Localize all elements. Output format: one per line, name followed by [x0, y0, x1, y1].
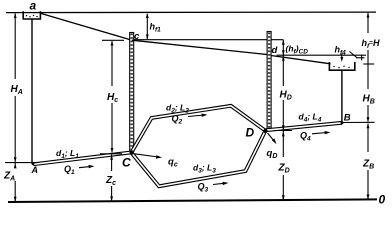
(hf)CD dimension — [282, 40, 284, 56]
HGL segment a to c — [40, 13, 131, 40]
tick at B water level on dim line — [363, 63, 374, 65]
d piezometric level line — [277, 54, 367, 56]
c level tick (left of tube) — [102, 39, 124, 41]
svg-text:D: D — [246, 126, 255, 140]
H_B dimension — [367, 64, 369, 122]
Z_D dimension — [282, 131, 284, 200]
pipe 1 A to C (double line) — [33, 153, 130, 165]
piezometer tube c — [130, 33, 134, 152]
reservoir tank a — [23, 11, 40, 19]
hf4 leader line — [350, 52, 357, 58]
Z_A dimension — [14, 163, 16, 202]
D level tick — [274, 130, 292, 132]
A level tick — [5, 162, 38, 164]
pipe 3 lower branch C to D (double line) — [132, 133, 265, 187]
pipe 4 D to B (double line) — [266, 123, 342, 130]
svg-text:B: B — [344, 113, 351, 124]
hf4 arrow down to water level — [341, 54, 343, 60]
Z_B dimension — [367, 124, 369, 200]
piezometer tube d — [267, 32, 271, 130]
supply line tank a down to A — [31, 20, 33, 164]
water dots in tank B — [333, 66, 349, 69]
corner blob at B — [341, 121, 344, 124]
junction D blob — [263, 129, 267, 133]
datum line 0-0 — [8, 199, 377, 202]
reservoir tank B — [329, 62, 354, 70]
svg-text:d: d — [272, 45, 278, 56]
svg-text:0: 0 — [379, 193, 386, 207]
junction C blob — [130, 150, 134, 154]
qc arrow — [135, 154, 159, 157]
pipe 2 upper branch C to D (double line) — [132, 106, 266, 152]
top energy reference line — [6, 11, 376, 14]
hf=H dimension (top right) — [367, 13, 369, 64]
H_A dimension — [14, 14, 16, 162]
Z_C dimension — [111, 155, 113, 202]
c piezometric level line — [134, 39, 283, 41]
B level tick — [342, 121, 375, 123]
svg-text:C: C — [122, 156, 131, 170]
HGL segment c to d — [132, 40, 270, 55]
svg-text:a: a — [30, 0, 37, 13]
corner blob at A — [32, 162, 35, 165]
water dots in tank a — [26, 15, 38, 18]
HGL segment d to reservoir B — [271, 56, 331, 64]
qD arrow — [268, 133, 275, 142]
H_C dimension — [111, 41, 113, 153]
B water level tick — [356, 57, 365, 59]
H_D dimension — [282, 55, 284, 130]
hf1 dimension — [146, 14, 148, 39]
C level tick — [100, 153, 122, 155]
svg-text:A: A — [31, 165, 39, 175]
supply line tank B down to B — [341, 71, 343, 123]
